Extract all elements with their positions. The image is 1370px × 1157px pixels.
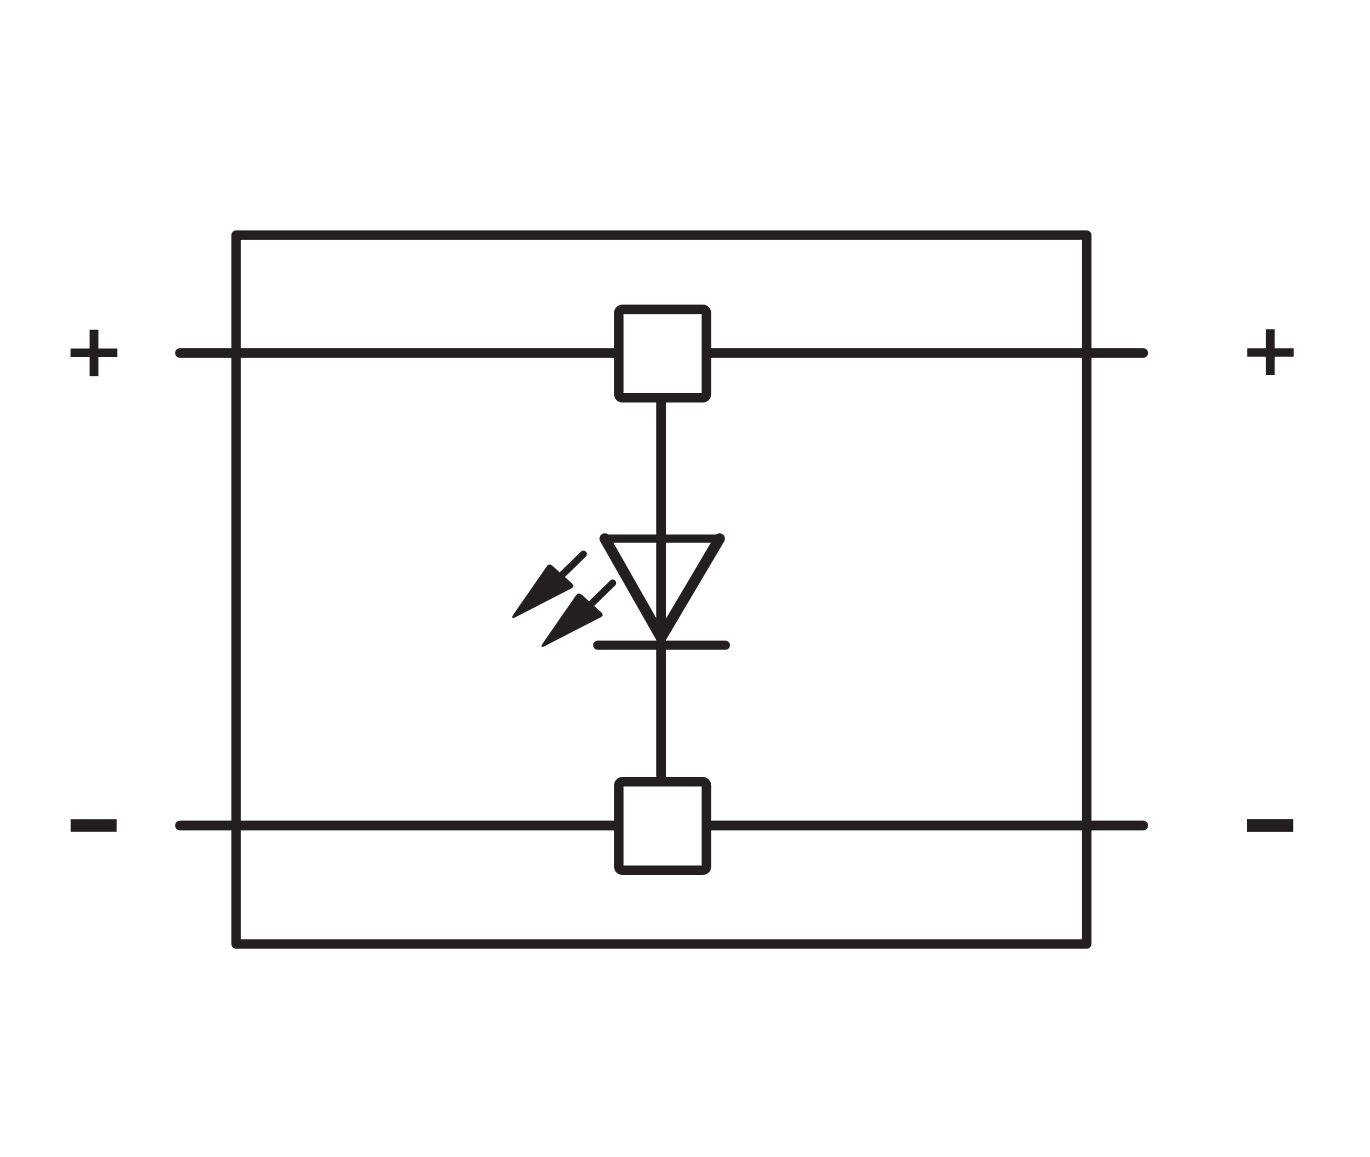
LED D1 triangle top bar (anode) bbox=[605, 534, 719, 542]
polarity label + (right) bbox=[1247, 329, 1294, 375]
terminal block body outline bbox=[236, 235, 1087, 944]
wire - rail (bottom horizontal conductor) bbox=[180, 821, 1143, 831]
clamp terminal contact (bottom, - side) bbox=[619, 782, 707, 870]
polarity label - (left) bbox=[71, 819, 117, 832]
LED light arrow 2 bbox=[541, 583, 612, 647]
clamp terminal contact (top, + side) bbox=[619, 309, 707, 397]
LED D1 triangle slanted edges bbox=[605, 539, 720, 638]
LED D1 cathode bar bbox=[598, 641, 726, 650]
wire + rail (top horizontal conductor) bbox=[180, 348, 1143, 358]
polarity label + (left) bbox=[71, 330, 118, 376]
LED light arrow 1 bbox=[512, 554, 583, 618]
wire LED branch (vertical conductor between clamp points) bbox=[656, 353, 666, 826]
polarity label - (right) bbox=[1247, 819, 1293, 832]
